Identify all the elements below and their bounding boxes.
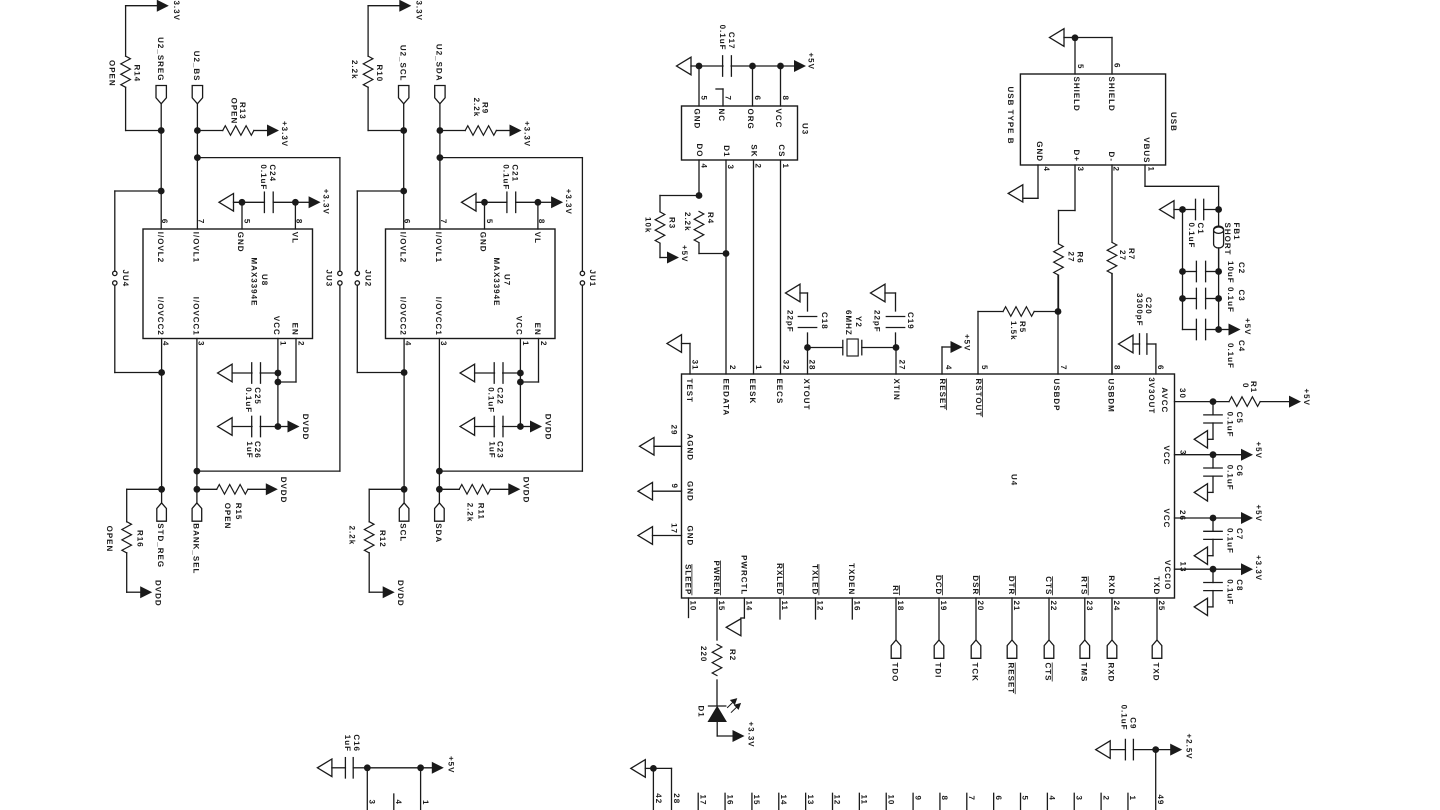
svg-text:D-: D- <box>1107 152 1116 162</box>
svg-text:20: 20 <box>976 601 985 612</box>
svg-text:U4: U4 <box>1010 474 1019 486</box>
svg-text:RESET: RESET <box>1007 663 1016 695</box>
svg-text:16: 16 <box>725 795 734 806</box>
svg-text:XTOUT: XTOUT <box>802 379 811 411</box>
svg-text:3: 3 <box>439 341 448 346</box>
svg-text:I/OVL2: I/OVL2 <box>399 232 408 263</box>
svg-text:JU2: JU2 <box>364 270 373 288</box>
svg-text:VL: VL <box>533 232 542 244</box>
svg-text:0: 0 <box>1241 383 1250 388</box>
svg-text:OPEN: OPEN <box>230 98 239 125</box>
svg-text:DVDD: DVDD <box>544 414 553 441</box>
svg-text:31: 31 <box>691 360 700 371</box>
svg-text:C18: C18 <box>820 312 829 330</box>
svg-text:USB: USB <box>1169 112 1178 132</box>
svg-text:28: 28 <box>807 360 816 371</box>
svg-text:C16: C16 <box>352 734 361 752</box>
svg-text:TXD: TXD <box>1152 576 1161 595</box>
svg-text:6: 6 <box>994 796 1003 801</box>
svg-text:C25: C25 <box>253 387 262 405</box>
svg-text:EECS: EECS <box>775 379 784 405</box>
svg-text:AVCC: AVCC <box>1160 387 1169 413</box>
svg-text:DVDD: DVDD <box>279 477 288 504</box>
svg-text:GND: GND <box>686 481 695 502</box>
svg-text:TCK: TCK <box>971 663 980 682</box>
svg-text:I/OVCC2: I/OVCC2 <box>399 297 408 336</box>
svg-text:8: 8 <box>537 219 546 224</box>
svg-text:12: 12 <box>816 601 825 612</box>
svg-text:STD_REG: STD_REG <box>156 523 165 568</box>
svg-text:6: 6 <box>753 96 762 101</box>
svg-text:1: 1 <box>278 341 287 346</box>
svg-text:11: 11 <box>780 601 789 611</box>
svg-text:0.1uF: 0.1uF <box>486 387 495 413</box>
svg-text:14: 14 <box>745 601 754 612</box>
svg-text:2: 2 <box>539 341 548 346</box>
svg-text:RXLED: RXLED <box>775 563 784 595</box>
svg-text:MAX3394E: MAX3394E <box>250 258 259 307</box>
svg-text:0.1uF: 0.1uF <box>1226 579 1235 605</box>
svg-text:DVDD: DVDD <box>301 414 310 441</box>
svg-text:JU3: JU3 <box>325 270 334 288</box>
svg-text:PWREN: PWREN <box>712 561 721 596</box>
svg-text:USBDM: USBDM <box>1106 379 1115 413</box>
svg-text:SK: SK <box>749 144 758 157</box>
svg-text:19: 19 <box>939 601 948 612</box>
svg-text:SHIELD: SHIELD <box>1107 77 1116 112</box>
svg-text:RI: RI <box>891 585 900 595</box>
svg-text:I/OVCC2: I/OVCC2 <box>156 297 165 336</box>
svg-text:NC: NC <box>717 109 726 123</box>
svg-text:0.1uF: 0.1uF <box>244 387 253 413</box>
svg-text:DCD: DCD <box>934 575 943 595</box>
svg-text:DO: DO <box>695 144 704 158</box>
svg-text:C2: C2 <box>1237 262 1246 274</box>
svg-text:3: 3 <box>1076 167 1085 172</box>
svg-text:GND: GND <box>693 109 702 130</box>
svg-text:FB1: FB1 <box>1232 223 1241 241</box>
svg-text:DVDD: DVDD <box>522 477 531 504</box>
svg-text:SCL: SCL <box>399 523 408 542</box>
svg-text:0.1uF: 0.1uF <box>1226 412 1235 438</box>
svg-text:0.1uF: 0.1uF <box>1226 465 1235 491</box>
svg-text:10: 10 <box>689 601 698 612</box>
svg-text:30: 30 <box>1178 388 1187 399</box>
svg-text:U8: U8 <box>260 274 269 286</box>
svg-text:8: 8 <box>940 796 949 801</box>
svg-text:TXD: TXD <box>1152 663 1161 682</box>
svg-text:TXLED: TXLED <box>810 564 819 595</box>
svg-text:U2_SREG: U2_SREG <box>156 37 165 81</box>
svg-text:+5V: +5V <box>807 53 816 70</box>
svg-text:1.5k: 1.5k <box>1009 321 1018 341</box>
svg-text:10uF: 10uF <box>1226 261 1235 284</box>
svg-text:0.1uF: 0.1uF <box>1226 343 1235 369</box>
svg-text:JU1: JU1 <box>588 270 597 288</box>
svg-text:2.2k: 2.2k <box>466 503 475 523</box>
svg-text:USBDP: USBDP <box>1052 379 1061 412</box>
svg-text:R15: R15 <box>234 503 243 521</box>
svg-text:ORG: ORG <box>746 109 755 130</box>
svg-text:7: 7 <box>723 96 732 101</box>
svg-text:R9: R9 <box>481 102 490 114</box>
svg-text:SHIELD: SHIELD <box>1072 77 1081 112</box>
svg-text:+5V: +5V <box>1254 442 1263 459</box>
svg-text:TEST: TEST <box>685 379 694 403</box>
svg-text:C8: C8 <box>1235 579 1244 591</box>
svg-text:+3.3V: +3.3V <box>1254 555 1263 581</box>
svg-text:15: 15 <box>752 795 761 806</box>
svg-text:RESET: RESET <box>938 379 947 411</box>
svg-text:8: 8 <box>1113 365 1122 370</box>
svg-text:7: 7 <box>197 219 206 224</box>
svg-text:U7: U7 <box>503 274 512 286</box>
svg-text:MAX3394E: MAX3394E <box>492 258 501 307</box>
svg-text:EN: EN <box>533 323 542 336</box>
svg-text:42: 42 <box>654 793 663 804</box>
svg-text:PWRCTL: PWRCTL <box>739 555 748 595</box>
svg-text:8: 8 <box>781 96 790 101</box>
svg-text:GND: GND <box>1035 141 1044 162</box>
svg-text:3: 3 <box>197 341 206 346</box>
svg-text:6: 6 <box>1112 63 1121 68</box>
svg-text:I/OVL2: I/OVL2 <box>156 232 165 263</box>
svg-text:VBUS: VBUS <box>1142 137 1151 163</box>
svg-text:OPEN: OPEN <box>105 526 114 553</box>
svg-text:VCC: VCC <box>272 316 281 336</box>
svg-text:U2_BS: U2_BS <box>192 51 201 82</box>
svg-text:+2.5V: +2.5V <box>1185 734 1194 760</box>
svg-text:OPEN: OPEN <box>108 60 117 87</box>
svg-text:EN: EN <box>291 323 300 336</box>
svg-text:10: 10 <box>886 795 895 806</box>
svg-text:CTS: CTS <box>1044 576 1053 595</box>
svg-text:1: 1 <box>781 164 790 169</box>
svg-text:0.1uF: 0.1uF <box>1119 705 1128 731</box>
svg-text:16: 16 <box>853 601 862 612</box>
svg-text:0.1uF: 0.1uF <box>718 25 727 51</box>
svg-text:VCCIO: VCCIO <box>1163 560 1172 590</box>
svg-text:C24: C24 <box>268 164 277 182</box>
svg-text:SLEEP: SLEEP <box>683 564 692 595</box>
svg-text:4: 4 <box>1048 796 1057 801</box>
svg-text:TDI: TDI <box>934 663 943 679</box>
svg-text:DVDD: DVDD <box>154 580 163 607</box>
svg-text:VCC: VCC <box>515 316 524 336</box>
svg-text:25: 25 <box>1157 601 1166 612</box>
svg-text:C4: C4 <box>1237 340 1246 352</box>
svg-text:3V3OUT: 3V3OUT <box>1147 377 1156 414</box>
svg-text:14: 14 <box>779 795 788 806</box>
svg-text:2: 2 <box>1101 796 1110 801</box>
svg-text:3: 3 <box>1179 450 1188 455</box>
svg-text:USB TYPE B: USB TYPE B <box>1006 87 1015 145</box>
svg-text:VCC: VCC <box>1162 509 1171 529</box>
svg-text:VL: VL <box>291 232 300 244</box>
svg-text:1: 1 <box>1146 167 1155 172</box>
svg-text:RTS: RTS <box>1080 576 1089 595</box>
svg-text:22pF: 22pF <box>786 310 795 333</box>
svg-text:TDO: TDO <box>891 663 900 683</box>
svg-text:+5V: +5V <box>963 334 972 351</box>
svg-text:9: 9 <box>913 796 922 801</box>
svg-text:0.1uF: 0.1uF <box>502 164 511 190</box>
svg-text:0.1uF: 0.1uF <box>1187 223 1196 249</box>
svg-text:5: 5 <box>485 219 494 224</box>
svg-text:32: 32 <box>781 360 790 371</box>
svg-text:C9: C9 <box>1128 717 1137 729</box>
svg-text:8: 8 <box>294 219 303 224</box>
svg-text:29: 29 <box>670 425 679 436</box>
svg-text:U2_SCL: U2_SCL <box>399 45 408 82</box>
svg-text:1uF: 1uF <box>343 735 352 752</box>
svg-text:+5V: +5V <box>1302 389 1311 406</box>
svg-text:0.1uF: 0.1uF <box>1226 528 1235 554</box>
svg-text:R16: R16 <box>136 530 145 548</box>
svg-text:4: 4 <box>161 341 170 346</box>
svg-text:27: 27 <box>897 360 906 371</box>
svg-text:6: 6 <box>403 219 412 224</box>
svg-text:3: 3 <box>368 800 377 805</box>
svg-text:U3: U3 <box>801 123 810 135</box>
svg-text:4: 4 <box>699 164 708 169</box>
svg-text:23: 23 <box>1085 601 1094 612</box>
svg-text:1: 1 <box>421 800 430 805</box>
svg-text:R3: R3 <box>668 217 677 229</box>
svg-text:9: 9 <box>670 484 679 489</box>
svg-text:D1: D1 <box>697 706 706 718</box>
svg-text:17: 17 <box>698 795 707 806</box>
svg-text:D1: D1 <box>722 145 731 157</box>
svg-text:6MHZ: 6MHZ <box>844 310 853 336</box>
svg-text:5: 5 <box>243 219 252 224</box>
svg-text:R7: R7 <box>1127 248 1136 260</box>
svg-text:DSR: DSR <box>971 575 980 595</box>
svg-text:C21: C21 <box>511 164 520 182</box>
svg-text:TXDEN: TXDEN <box>847 563 856 595</box>
svg-text:1: 1 <box>1128 796 1137 801</box>
svg-text:I/OVCC1: I/OVCC1 <box>192 297 201 336</box>
svg-text:D+: D+ <box>1072 150 1081 162</box>
svg-text:0.1uF: 0.1uF <box>259 164 268 190</box>
svg-text:13: 13 <box>806 795 815 806</box>
svg-text:GND: GND <box>686 526 695 547</box>
svg-text:12: 12 <box>833 795 842 806</box>
svg-text:27: 27 <box>1118 250 1127 261</box>
svg-text:TMS: TMS <box>1079 663 1088 683</box>
svg-text:5: 5 <box>1076 64 1085 69</box>
svg-text:28: 28 <box>672 793 681 804</box>
svg-text:SDA: SDA <box>434 523 443 543</box>
svg-text:+3.3V: +3.3V <box>172 0 181 21</box>
svg-text:C6: C6 <box>1235 465 1244 477</box>
svg-text:R14: R14 <box>133 65 142 83</box>
svg-text:4: 4 <box>944 365 953 370</box>
svg-text:EEDATA: EEDATA <box>722 379 731 417</box>
svg-text:R11: R11 <box>477 503 486 520</box>
svg-text:3: 3 <box>1074 796 1083 801</box>
svg-text:C5: C5 <box>1235 412 1244 424</box>
svg-text:220: 220 <box>699 646 708 662</box>
svg-text:EESK: EESK <box>748 379 757 405</box>
svg-text:4: 4 <box>394 800 403 805</box>
svg-text:+3.3V: +3.3V <box>321 189 330 215</box>
svg-text:6: 6 <box>160 219 169 224</box>
svg-text:AGND: AGND <box>686 434 695 462</box>
svg-text:1uF: 1uF <box>487 441 496 458</box>
svg-text:R4: R4 <box>706 212 715 224</box>
svg-text:24: 24 <box>1112 601 1121 612</box>
svg-text:1uF: 1uF <box>245 441 254 458</box>
svg-text:RXD: RXD <box>1107 663 1116 683</box>
svg-text:C1: C1 <box>1196 223 1205 235</box>
svg-text:+5V: +5V <box>1243 318 1252 335</box>
svg-text:JU4: JU4 <box>121 270 130 288</box>
svg-text:2: 2 <box>296 341 305 346</box>
svg-text:+5V: +5V <box>446 756 455 773</box>
svg-text:VCC: VCC <box>774 109 783 129</box>
svg-text:+3.3V: +3.3V <box>280 121 289 147</box>
svg-text:7: 7 <box>967 796 976 801</box>
svg-text:I/OVL1: I/OVL1 <box>192 232 201 263</box>
svg-text:15: 15 <box>717 601 726 612</box>
svg-text:26: 26 <box>1178 510 1187 521</box>
svg-text:CS: CS <box>777 144 786 157</box>
svg-text:13: 13 <box>1179 562 1188 573</box>
svg-text:2.2k: 2.2k <box>350 60 359 80</box>
svg-text:+5V: +5V <box>1254 505 1263 522</box>
svg-text:C7: C7 <box>1235 528 1244 540</box>
svg-text:27: 27 <box>1067 252 1076 263</box>
svg-text:GND: GND <box>236 232 245 253</box>
svg-text:+3.3V: +3.3V <box>564 189 573 215</box>
svg-text:C19: C19 <box>906 312 915 330</box>
svg-text:RXD: RXD <box>1107 575 1116 595</box>
svg-text:OPEN: OPEN <box>223 503 232 530</box>
svg-text:CTS: CTS <box>1044 663 1053 682</box>
svg-text:DTR: DTR <box>1007 576 1016 595</box>
svg-text:R12: R12 <box>378 530 387 548</box>
svg-text:C3: C3 <box>1237 290 1246 302</box>
svg-text:I/OVCC1: I/OVCC1 <box>434 297 443 336</box>
svg-text:GND: GND <box>479 232 488 253</box>
svg-text:+3.3V: +3.3V <box>747 722 756 748</box>
svg-text:4: 4 <box>1042 167 1051 172</box>
svg-text:R6: R6 <box>1076 252 1085 264</box>
svg-text:17: 17 <box>670 523 679 534</box>
svg-text:BANK_SEL: BANK_SEL <box>191 523 200 574</box>
svg-text:C20: C20 <box>1144 297 1153 315</box>
svg-text:18: 18 <box>896 601 905 612</box>
svg-text:+3.3V: +3.3V <box>522 121 531 147</box>
svg-text:22pF: 22pF <box>873 310 882 333</box>
svg-text:2.2k: 2.2k <box>348 526 357 546</box>
svg-text:SHORT: SHORT <box>1223 223 1232 256</box>
svg-text:R2: R2 <box>728 649 737 661</box>
svg-text:0.1uF: 0.1uF <box>1226 287 1235 313</box>
svg-text:DVDD: DVDD <box>396 580 405 607</box>
svg-text:22: 22 <box>1049 601 1058 612</box>
svg-text:3: 3 <box>726 165 735 170</box>
svg-text:RSTOUT: RSTOUT <box>974 379 983 418</box>
svg-text:1: 1 <box>754 365 763 370</box>
svg-text:11: 11 <box>860 795 869 805</box>
svg-text:Y2: Y2 <box>854 316 863 328</box>
svg-text:49: 49 <box>1156 795 1165 806</box>
svg-text:R5: R5 <box>1018 321 1027 333</box>
svg-text:+3.3V: +3.3V <box>415 0 424 21</box>
svg-text:R10: R10 <box>375 65 384 83</box>
svg-text:4: 4 <box>404 341 413 346</box>
svg-text:I/OVL1: I/OVL1 <box>434 232 443 263</box>
svg-text:21: 21 <box>1012 601 1021 612</box>
svg-text:5: 5 <box>980 365 989 370</box>
svg-text:7: 7 <box>1059 365 1068 370</box>
svg-text:2: 2 <box>728 365 737 370</box>
svg-text:2.2k: 2.2k <box>472 98 481 118</box>
svg-text:1: 1 <box>521 341 530 346</box>
svg-text:2.2k: 2.2k <box>683 212 692 232</box>
svg-text:5: 5 <box>699 96 708 101</box>
svg-text:C17: C17 <box>727 32 736 50</box>
svg-text:U2_SDA: U2_SDA <box>435 44 444 82</box>
svg-text:6: 6 <box>1156 365 1165 370</box>
svg-text:R13: R13 <box>238 102 247 120</box>
svg-text:VCC: VCC <box>1162 446 1171 466</box>
svg-text:7: 7 <box>439 219 448 224</box>
svg-text:3300pF: 3300pF <box>1135 293 1144 327</box>
svg-text:XTIN: XTIN <box>892 379 901 401</box>
svg-text:2: 2 <box>753 164 762 169</box>
svg-text:C22: C22 <box>495 387 504 405</box>
svg-text:10k: 10k <box>644 217 653 233</box>
svg-text:5: 5 <box>1021 796 1030 801</box>
svg-text:+5V: +5V <box>680 245 689 262</box>
